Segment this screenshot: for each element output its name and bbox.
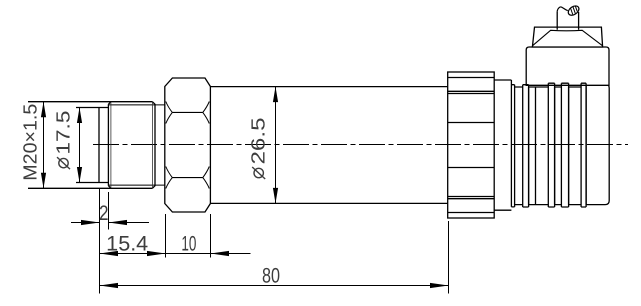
- hex chamfer arcs: [166, 102, 210, 189]
- thread chamfer verticals: [111, 102, 152, 189]
- svg-text:15.4: 15.4: [106, 232, 148, 255]
- svg-text:M20×1.5: M20×1.5: [21, 104, 42, 181]
- dim 2: [71, 222, 149, 224]
- dim ⌀26.5: [275, 87, 277, 204]
- svg-text:17.5: 17.5: [54, 111, 75, 155]
- cable break squiggle: [557, 4, 580, 17]
- cable tube: [557, 11, 578, 30]
- connector housing fins: [511, 80, 522, 207]
- gland hex: [532, 27, 602, 47]
- svg-text:10: 10: [181, 232, 196, 255]
- tall fins: [523, 85, 529, 207]
- hex nut outline: [165, 78, 211, 212]
- neck: [494, 80, 511, 210]
- centerline: [93, 144, 628, 146]
- nose (⌀17.5 end face): [76, 108, 108, 183]
- hex facet lines: [172, 112, 203, 177]
- thread M20 outer: [28, 102, 155, 189]
- dim 15.4 / 10: [100, 253, 251, 255]
- dim 80: [100, 285, 449, 287]
- svg-text:2: 2: [99, 202, 109, 225]
- dim M20x1.5: [43, 102, 45, 189]
- svg-text:26.5: 26.5: [249, 118, 270, 165]
- ext lines bottom: [100, 189, 449, 294]
- body cylinder ⌀26.5: [210, 87, 447, 204]
- knurled nut: [448, 72, 495, 218]
- dim ⌀17.5: [79, 108, 81, 183]
- text M20x1.5: [21, 104, 42, 181]
- housing end cap: [586, 84, 609, 205]
- svg-text:80: 80: [262, 265, 280, 288]
- text ⌀17.5: [54, 111, 75, 170]
- cable gland base: [526, 47, 609, 85]
- text ⌀26.5: [249, 118, 270, 180]
- thread minor / neck lines: [108, 105, 164, 185]
